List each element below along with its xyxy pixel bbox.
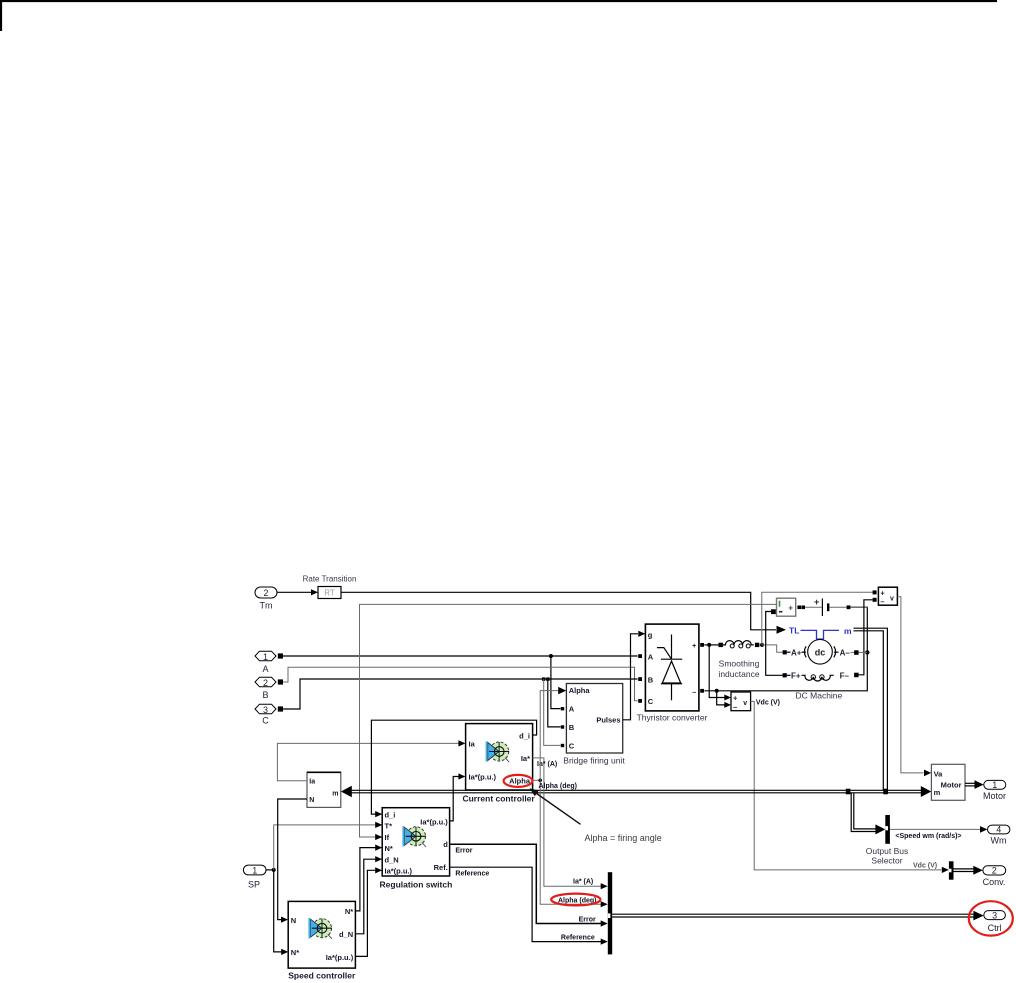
- svg-text:2: 2: [992, 866, 997, 876]
- block Bridge firing unit: [563, 684, 625, 766]
- svg-text:If: If: [385, 833, 390, 842]
- arrow bus into Motor m input: [921, 786, 932, 797]
- input port C (3) hexagon: [255, 704, 283, 725]
- svg-text:B: B: [648, 676, 654, 685]
- svg-text:Ctrl: Ctrl: [988, 923, 1002, 933]
- svg-text:N*: N*: [385, 844, 393, 853]
- node SP junction: [272, 868, 276, 872]
- icon controller fan CC: [486, 741, 510, 762]
- output port Conv (2): [983, 866, 1006, 887]
- svg-text:C: C: [648, 697, 654, 706]
- svg-text:Ref.: Ref.: [434, 863, 448, 872]
- wire ammeter minus down to F+: [766, 612, 783, 676]
- svg-text:dc: dc: [815, 647, 826, 657]
- wire tap A down to BFU A: [551, 656, 561, 709]
- mux Output Bus Selector: [885, 815, 890, 844]
- svg-text:C: C: [262, 716, 269, 726]
- wire SP up to T* of Regulation switch: [274, 825, 376, 870]
- svg-text:N*: N*: [291, 948, 299, 957]
- svg-text:Vdc (V): Vdc (V): [913, 863, 937, 870]
- svg-text:A: A: [648, 653, 654, 662]
- node tap on phase C wire for BFU B: [546, 677, 549, 680]
- input port SP (1): [243, 865, 266, 889]
- bus Ctrl mux output to port 3: [612, 913, 975, 915]
- mux Ctrl signals: [608, 872, 612, 954]
- wire RS d output down to selector (Error): [450, 844, 601, 923]
- svg-text:m: m: [332, 790, 338, 797]
- svg-text:<Speed wm (rad/s)>: <Speed wm (rad/s)>: [895, 833, 961, 840]
- svg-text:Alpha (deg): Alpha (deg): [539, 783, 578, 790]
- wire d_i loop back to Regulation switch: [371, 720, 536, 814]
- node bus junction from machine: [883, 789, 888, 795]
- svg-text:v: v: [890, 595, 894, 602]
- svg-text:1: 1: [252, 865, 257, 875]
- wire v- of Va down to F-: [859, 600, 873, 675]
- svg-text:d_N: d_N: [339, 930, 353, 939]
- svg-text:+: +: [788, 604, 793, 613]
- output port Ctrl (3): [984, 910, 1006, 933]
- svg-text:Speed controller: Speed controller: [288, 971, 356, 981]
- node junction smoothing output: [760, 643, 764, 647]
- input port B (2) hexagon: [255, 677, 283, 700]
- svg-text:Error: Error: [455, 847, 472, 854]
- input port Tm (2): [255, 587, 277, 611]
- svg-text:Alpha = firing angle: Alpha = firing angle: [585, 833, 662, 843]
- wire Ia* output down to selector: [533, 758, 601, 886]
- svg-text:m: m: [844, 626, 852, 636]
- ammeter minus port square: [771, 609, 776, 614]
- voltmeter U_Va: [878, 587, 897, 606]
- svg-text:Smoothing: Smoothing: [719, 659, 760, 669]
- node tap on phase C wire for BFU C: [542, 677, 545, 680]
- svg-text:Motor: Motor: [941, 780, 962, 789]
- svg-text:g: g: [648, 631, 653, 640]
- svg-text:A+: A+: [791, 648, 802, 657]
- wire Tm to RT: [277, 591, 312, 593]
- wire Va signal to Motor Va input: [897, 597, 923, 773]
- input port A (1) hexagon: [255, 651, 283, 674]
- battery DC source: [805, 597, 867, 616]
- svg-text:Ia*(p.u.): Ia*(p.u.): [420, 818, 448, 827]
- wire + rail down to Vdc voltmeter +: [709, 645, 724, 698]
- svg-text:N: N: [291, 916, 296, 925]
- svg-text:F+: F+: [791, 672, 801, 681]
- wire Alpha down to selector: [540, 780, 601, 904]
- wire RT to TL of DC machine: [341, 592, 776, 630]
- svg-text:+: +: [692, 641, 697, 650]
- block Thyristor converter: [637, 624, 708, 723]
- smoothing inductance left port: [719, 643, 723, 647]
- wire measures N output to Speed controller N: [278, 799, 307, 920]
- svg-text:3: 3: [992, 910, 997, 920]
- svg-text:Output Bus: Output Bus: [866, 846, 909, 856]
- wire junction up to Va voltmeter +: [762, 592, 873, 645]
- wire tap down to BFU B: [548, 679, 561, 727]
- wire SP to junction: [266, 869, 274, 871]
- svg-text:Vdc (V): Vdc (V): [756, 700, 780, 707]
- svg-text:DC Machine: DC Machine: [796, 691, 843, 701]
- ammeter U_If current measurement: [777, 598, 796, 616]
- svg-text:2: 2: [263, 588, 268, 598]
- svg-text:Va: Va: [934, 769, 944, 778]
- ellipse red highlight Alpha (deg): [551, 894, 600, 906]
- wire RS Ref output down to selector (Reference): [450, 867, 601, 941]
- wire Pulses to thyristor g: [623, 634, 638, 720]
- svg-text:2: 2: [263, 678, 268, 688]
- node junction on + rail: [707, 643, 711, 647]
- svg-text:1: 1: [992, 780, 997, 790]
- output port Wm (4): [988, 825, 1010, 846]
- inductor Smoothing inductance: [718, 641, 759, 679]
- svg-text:B: B: [569, 723, 575, 732]
- arrow bus into measures block m input: [341, 786, 352, 798]
- svg-text:Ia*(p.u.): Ia*(p.u.): [385, 867, 413, 876]
- svg-text:Selector: Selector: [871, 856, 902, 866]
- window frame top border: [1, 1, 997, 31]
- thyristor symbol: [671, 635, 673, 660]
- bus main feedback (double line): [352, 789, 922, 791]
- wire thyristor + to smoothing inductance: [704, 644, 718, 646]
- svg-text:d_N: d_N: [385, 855, 399, 864]
- smoothing inductance right port: [755, 643, 759, 647]
- svg-text:–: –: [880, 597, 884, 606]
- icon controller fan RS: [402, 826, 426, 847]
- node junction A- on return wire: [865, 650, 869, 654]
- block Motor scope subsystem: [931, 764, 965, 800]
- svg-text:Pulses: Pulses: [596, 716, 620, 725]
- svg-text:A–: A–: [840, 648, 851, 657]
- block measures selector Ia N: [307, 772, 341, 807]
- wire SC d_N output up to RS d_N: [355, 859, 375, 934]
- svg-text:–: –: [733, 702, 737, 711]
- svg-text:Ia*: Ia*: [521, 754, 530, 763]
- svg-text:Tm: Tm: [260, 601, 273, 611]
- svg-text:T*: T*: [385, 822, 393, 831]
- svg-text:Error: Error: [579, 917, 596, 924]
- voltmeter Va input squares: [873, 590, 877, 594]
- output port Motor (1): [983, 780, 1006, 801]
- svg-text:v: v: [743, 700, 747, 707]
- svg-text:Motor: Motor: [983, 791, 1006, 801]
- svg-text:A: A: [569, 705, 575, 714]
- block Rate Transition RT: [303, 575, 357, 599]
- svg-text:B: B: [262, 690, 268, 700]
- svg-text:inductance: inductance: [718, 669, 759, 679]
- svg-text:d: d: [443, 840, 448, 849]
- svg-text:Current controller: Current controller: [462, 794, 535, 804]
- wire Vdc signal down to Conv selector: [751, 701, 942, 870]
- DC Machine block: [783, 626, 868, 701]
- thyristor output port squares: [700, 643, 704, 647]
- wire speed signal to Wm port: [890, 828, 980, 830]
- svg-text:Ia*(p.u.): Ia*(p.u.): [326, 953, 354, 962]
- svg-text:A: A: [262, 664, 268, 674]
- node junction on - rail: [715, 689, 719, 693]
- svg-text:d_i: d_i: [519, 731, 530, 740]
- svg-text:Reference: Reference: [455, 870, 489, 877]
- bus branch down to Output Bus Selector: [851, 793, 876, 832]
- wire - rail down to Vdc voltmeter -: [717, 691, 725, 705]
- svg-text:Alpha: Alpha: [569, 686, 591, 695]
- wire Alpha up to Bridge firing unit: [540, 691, 559, 781]
- annotation arrow Alpha = firing angle: [533, 791, 581, 824]
- svg-text:–: –: [692, 688, 696, 697]
- svg-text:Rate Transition: Rate Transition: [303, 575, 357, 584]
- wire Alpha output junction: [533, 779, 541, 781]
- svg-text:SP: SP: [248, 880, 260, 890]
- block Current controller: [462, 724, 535, 804]
- wire SC Ia*(p.u.) output up to RS: [355, 870, 375, 956]
- svg-text:Conv.: Conv.: [983, 877, 1006, 887]
- node tap A for bridge firing unit: [549, 654, 553, 658]
- wire phase A to thyristor A: [283, 655, 638, 657]
- svg-text:RT: RT: [324, 589, 335, 598]
- svg-text:Wm: Wm: [991, 836, 1007, 846]
- svg-text:Ia: Ia: [309, 778, 315, 785]
- wire thyristor - return to A- node: [704, 607, 867, 691]
- svg-text:Ia: Ia: [469, 739, 476, 748]
- svg-text:d_i: d_i: [385, 810, 396, 819]
- voltmeter U_Vdc: [731, 692, 751, 711]
- svg-text:C: C: [569, 742, 575, 751]
- ellipse red highlight Ctrl port: [969, 901, 1013, 935]
- svg-text:N: N: [309, 797, 314, 804]
- svg-text:Ia*(p.u.): Ia*(p.u.): [469, 773, 497, 782]
- svg-text:Reference: Reference: [561, 935, 595, 942]
- wire RS Ia*(p.u.) output up to CC input: [450, 777, 459, 821]
- wire i signal output to If of Regulation switch: [360, 604, 777, 837]
- svg-text:Thyristor converter: Thyristor converter: [637, 713, 708, 723]
- mux Conv selector: [949, 861, 954, 879]
- wire SP down to N* of Speed controller: [274, 870, 282, 952]
- svg-text:TL: TL: [789, 626, 799, 636]
- wire phase C to thyristor B: [283, 679, 638, 709]
- svg-text:Ia* (A): Ia* (A): [573, 879, 593, 886]
- bus m output of DC machine down to main bus: [854, 628, 888, 793]
- icon controller fan SC: [308, 918, 332, 939]
- wire SC N* output up to RS N*: [355, 848, 375, 911]
- block Regulation switch: [380, 808, 453, 890]
- svg-text:3: 3: [263, 705, 268, 715]
- svg-text:1: 1: [263, 652, 268, 662]
- wire measures Ia output to Current controller Ia: [277, 743, 458, 780]
- wire tap down to BFU C: [544, 679, 561, 745]
- svg-text:+: +: [814, 597, 819, 607]
- block Speed controller: [288, 901, 356, 980]
- bus Motor output to port 1: [965, 782, 977, 784]
- svg-text:Bridge firing unit: Bridge firing unit: [563, 756, 625, 766]
- node bus junction to selector: [846, 789, 851, 795]
- svg-text:F–: F–: [840, 672, 850, 681]
- svg-text:m: m: [934, 788, 941, 797]
- svg-text:Regulation switch: Regulation switch: [380, 880, 453, 890]
- ellipse red highlight Alpha output: [504, 775, 533, 787]
- svg-text:4: 4: [996, 825, 1001, 835]
- svg-text:+: +: [733, 694, 738, 703]
- wire smoothing output to DC machine A+: [762, 645, 783, 652]
- bus Conv mux to port 2: [954, 868, 976, 870]
- wire phase B to thyristor C: [283, 667, 638, 701]
- svg-text:N*: N*: [345, 907, 353, 916]
- ammeter plus port squares: [797, 606, 801, 610]
